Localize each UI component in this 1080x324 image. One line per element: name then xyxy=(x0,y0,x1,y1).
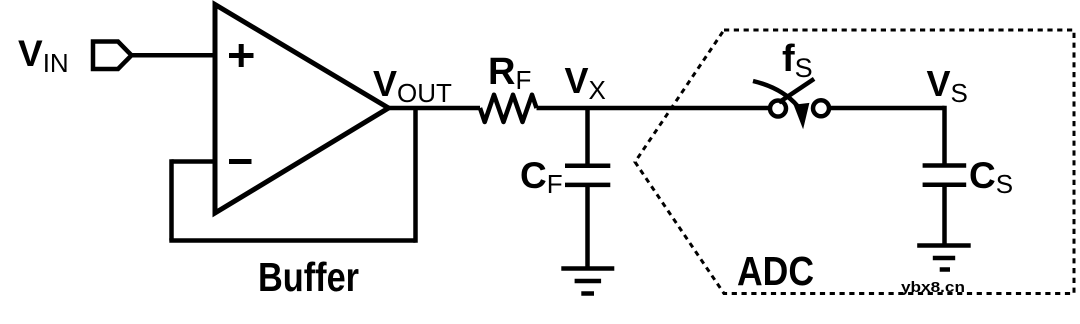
wire RF to node VX xyxy=(537,106,588,111)
input port VIN xyxy=(93,42,132,70)
wire feedback right vertical xyxy=(413,108,418,243)
wire CS to ground xyxy=(942,185,947,246)
capacitor CF xyxy=(565,166,610,185)
svg-text:Buffer: Buffer xyxy=(258,254,359,300)
wire feedback bottom xyxy=(169,238,415,243)
resistor RF xyxy=(480,95,537,122)
wire VS to CS xyxy=(942,106,947,167)
ADC boundary xyxy=(635,30,1074,294)
wire inverting input xyxy=(172,159,216,164)
wire VIN to op-amp noninverting input xyxy=(132,53,216,58)
wire feedback left vertical xyxy=(169,159,174,240)
wire op-amp output to RF xyxy=(389,106,481,111)
svg-text:ybx8.cn: ybx8.cn xyxy=(901,279,965,296)
switch S1 xyxy=(753,79,829,129)
wire VX to CF xyxy=(585,108,590,167)
op-amp U1 xyxy=(215,5,389,214)
svg-text:ADC: ADC xyxy=(737,248,814,294)
capacitor CS xyxy=(923,166,967,185)
ground GND2 xyxy=(917,246,971,270)
wire VX to switch xyxy=(588,106,771,111)
wire CF to ground xyxy=(585,185,590,269)
wire switch to VS xyxy=(829,106,945,111)
ground GND1 xyxy=(561,269,614,294)
